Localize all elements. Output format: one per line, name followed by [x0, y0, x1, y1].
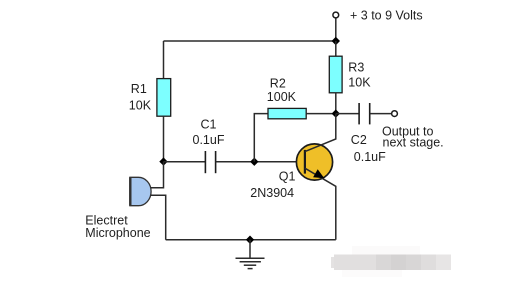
- ground: [236, 240, 265, 269]
- wire: left vertical to R1 top: [163, 41, 165, 79]
- wire: C1 right plate to base (through junction C): [216, 161, 305, 163]
- capacitor C2: [359, 103, 370, 124]
- svg-text:R2: R2: [270, 77, 286, 91]
- resistor R2: [268, 108, 306, 118]
- resistor R3: [329, 56, 342, 93]
- output terminal: [392, 111, 398, 117]
- svg-text:R1: R1: [131, 82, 147, 96]
- junction D (R3 / R2 / C2 / collector): [332, 109, 340, 117]
- wire: top rail from R1 top to V+ spine: [164, 40, 336, 42]
- electret microphone body: [130, 177, 151, 205]
- transistor Q1 body: [296, 144, 332, 180]
- wire: emitter (Q1 down to bottom rail): [305, 168, 336, 240]
- wire: R1 bottom to junction B: [163, 116, 165, 161]
- microphone diaphragm line: [129, 177, 131, 205]
- resistor R1: [157, 79, 171, 117]
- svg-text:0.1uF: 0.1uF: [354, 150, 386, 164]
- watermark: [331, 246, 451, 277]
- capacitor C1: [205, 151, 215, 173]
- svg-text:0.1uF: 0.1uF: [193, 133, 225, 147]
- svg-text:+ 3 to 9 Volts: + 3 to 9 Volts: [350, 8, 423, 22]
- wire: V+ terminal drop: [335, 18, 337, 41]
- wire: junction D to C2 left plate: [336, 113, 359, 115]
- svg-text:10K: 10K: [129, 99, 152, 113]
- svg-text:2N3904: 2N3904: [250, 186, 294, 200]
- wire: C2 right plate to output terminal: [370, 113, 392, 115]
- wire: mic bottom lead down to ground rail: [150, 195, 166, 240]
- svg-text:10K: 10K: [348, 75, 371, 89]
- wire: bottom ground rail: [166, 239, 336, 241]
- svg-text:100K: 100K: [267, 90, 297, 104]
- junction E (ground tap): [246, 236, 254, 244]
- svg-text:Microphone: Microphone: [85, 226, 150, 240]
- V+ terminal: [333, 12, 339, 18]
- svg-text:next stage.: next stage.: [383, 136, 444, 150]
- transistor Q1 emitter arrow: [313, 169, 324, 178]
- svg-text:R3: R3: [348, 61, 364, 75]
- transistor Q1 base bar: [304, 150, 306, 174]
- wire: R2 right lead to junction D: [306, 113, 336, 115]
- wire: collector (junction D down into Q1): [305, 114, 336, 152]
- wire: junction B to C1 left plate: [164, 161, 206, 163]
- junction A (top rail / V+): [332, 37, 340, 45]
- wire: R3 bottom to junction D: [335, 93, 337, 114]
- svg-text:C1: C1: [201, 117, 217, 131]
- junction C (C1 / R2 leg / base): [250, 158, 258, 166]
- wire: R2 left leg: [254, 114, 268, 162]
- svg-text:C2: C2: [351, 133, 367, 147]
- wire: junction A down to R3 top: [335, 41, 337, 56]
- junction B (R1 / C1 / mic): [159, 157, 167, 165]
- svg-text:Q1: Q1: [279, 169, 296, 183]
- wire: mic top lead to junction B vertical: [151, 162, 164, 188]
